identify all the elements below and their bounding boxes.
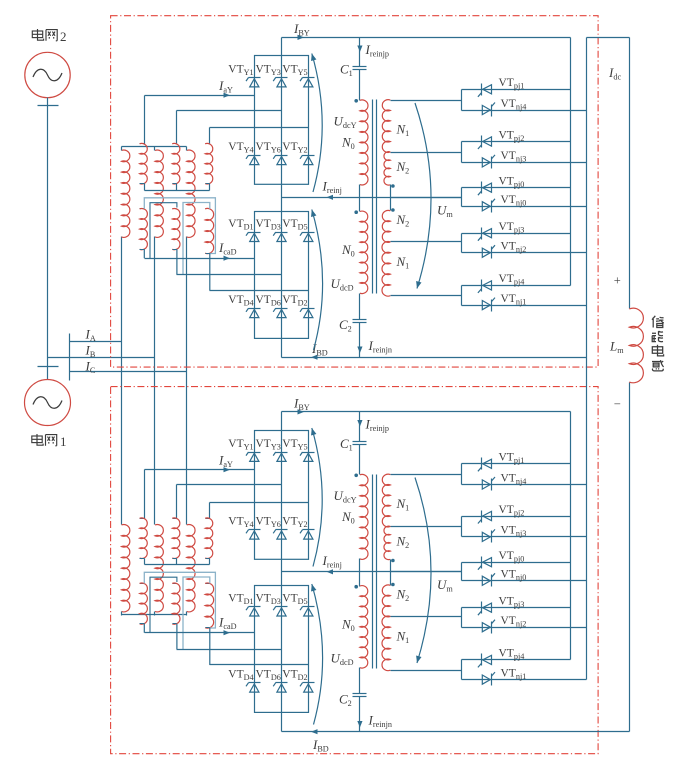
grid transformer primary winding col3 (lower block) bbox=[155, 525, 163, 612]
pair box pj1/nj4 left leg (lower block) bbox=[461, 464, 463, 485]
thyristor VT_D6 bbox=[276, 308, 288, 310]
arc U_dcY (upper block) bbox=[312, 54, 322, 193]
capacitor C2 (upper block) bbox=[353, 319, 367, 321]
grid transformer D-secondary winding col4 (upper block) bbox=[173, 208, 177, 210]
thyristor VT_D5 bbox=[303, 606, 315, 608]
grid1 terminal tick bbox=[38, 366, 59, 368]
thyristor VT_pj4 (upper block) bbox=[481, 280, 483, 292]
pj bus (upper block) bbox=[570, 38, 572, 286]
grid transformer D-secondary winding col4 (lower block) bbox=[173, 583, 177, 585]
grid transformer Y-secondary winding col2 (lower block) bbox=[140, 518, 145, 520]
bus bar bbox=[69, 334, 71, 381]
wire pj1 line (upper block) bbox=[462, 89, 571, 91]
wire nj4 line (upper block) bbox=[462, 110, 587, 112]
thyristor VT_D5 bbox=[303, 232, 315, 234]
wire center to N0 lower (lower block) bbox=[359, 572, 361, 587]
wire pj3 line (lower block) bbox=[462, 607, 571, 609]
thyristor VT_Y1 bbox=[249, 77, 261, 79]
wire nj0 line (upper block) bbox=[462, 206, 587, 208]
winding N2 upper (lower block) bbox=[384, 526, 390, 559]
thyristor VT_pj1 (upper block) bbox=[481, 84, 483, 96]
thyristor VT_pj0 (upper block) bbox=[481, 182, 483, 194]
wire phase ab to D-bridge (upper block) bbox=[177, 274, 282, 276]
wire D-bridge bottom to bottom rail (lower block) bbox=[281, 713, 283, 732]
pair box pj4/nj1 left leg (lower block) bbox=[461, 660, 463, 680]
winding N1 lower (upper block) bbox=[382, 241, 390, 296]
wire center tap (lower block) bbox=[391, 571, 462, 573]
phase C riser bbox=[186, 237, 188, 525]
thyristor VT_pj3 (upper block) bbox=[481, 228, 483, 240]
thyristor VT_Y3 bbox=[276, 77, 288, 79]
thyristor VT_Y3 bbox=[276, 452, 288, 454]
wire grid2 to bus bbox=[47, 98, 49, 380]
thyristor VT_nj2 (upper block) bbox=[491, 247, 493, 259]
wire tap5 (upper block) bbox=[391, 295, 462, 297]
thyristor VT_nj3 (lower block) bbox=[491, 531, 493, 543]
thyristor VT_Y4 bbox=[249, 155, 261, 157]
transformer core (lower block) bbox=[372, 475, 374, 669]
dc bus bbox=[629, 38, 631, 309]
winding N1 upper (upper block) bbox=[382, 100, 390, 153]
capacitor C2 (lower block) bbox=[353, 693, 367, 695]
D feed jog 2 (upper block) bbox=[176, 249, 178, 274]
wire pj3 line (upper block) bbox=[462, 233, 571, 235]
thyristor VT_Y2 bbox=[303, 529, 315, 531]
winding N1 lower (lower block) bbox=[382, 616, 390, 671]
wire Y feed 2 (lower block) bbox=[176, 485, 178, 519]
grid transformer Y-secondary winding col2 (upper block) bbox=[140, 143, 145, 145]
wire nj4 line (lower block) bbox=[462, 484, 587, 486]
grid transformer primary winding col1 (upper block) bbox=[122, 150, 130, 237]
delta link c (lower block) bbox=[183, 577, 210, 649]
thyristor VT_D2 bbox=[303, 308, 315, 310]
wire D-bridge bottom to bottom rail (upper block) bbox=[281, 339, 283, 358]
D bridge box bbox=[255, 212, 309, 339]
winding N1 upper (lower block) bbox=[382, 474, 390, 527]
primary neutral link (lower block) bbox=[122, 614, 187, 616]
thyristor VT_D1 bbox=[249, 606, 261, 608]
wire tap1 (lower block) bbox=[391, 474, 462, 476]
pair box pj3/nj2 left leg (upper block) bbox=[461, 234, 463, 253]
wire tap2 (upper block) bbox=[391, 152, 462, 154]
wire N0 lower to C2 (upper block) bbox=[359, 294, 361, 320]
pair box pj2/nj3 left leg (upper block) bbox=[461, 142, 463, 163]
Y-secondary neutral stub col6 (upper block) bbox=[209, 184, 211, 191]
winding N0 lower (upper block) bbox=[360, 211, 368, 293]
thyristor VT_Y5 bbox=[303, 452, 315, 454]
wire phase bc to D-bridge (lower block) bbox=[210, 664, 309, 666]
thyristor VT_pj1 (lower block) bbox=[481, 458, 483, 470]
wire I_C bbox=[70, 371, 187, 373]
thyristor VT_D4 bbox=[249, 308, 261, 310]
thyristor VT_nj3 (upper block) bbox=[491, 157, 493, 169]
delta link b (lower block) bbox=[150, 577, 177, 633]
thyristor VT_D6 bbox=[276, 682, 288, 684]
arc U_m (upper block) bbox=[415, 103, 431, 289]
winding N0 upper (lower block) bbox=[360, 474, 368, 559]
wire center to N0 lower (upper block) bbox=[359, 198, 361, 212]
arc U_dcD (upper block) bbox=[312, 210, 323, 351]
Y bridge middle leg bbox=[281, 431, 283, 559]
thyristor VT_D4 bbox=[249, 682, 261, 684]
wire pj4 line (upper block) bbox=[462, 285, 571, 287]
svg-text:−: − bbox=[614, 397, 621, 411]
thyristor VT_D1 bbox=[249, 232, 261, 234]
label grid1 电网1 bbox=[32, 434, 57, 446]
arc U_dcD (lower block) bbox=[312, 584, 323, 725]
wire phase a to Y-bridge (lower block) bbox=[145, 469, 255, 471]
grid2 terminal tick bbox=[38, 105, 59, 107]
thyristor VT_Y6 bbox=[276, 529, 288, 531]
inductor L_m bbox=[629, 308, 643, 383]
Y bridge middle leg bbox=[281, 56, 283, 185]
thyristor VT_nj2 (lower block) bbox=[491, 622, 493, 634]
Y bridge box bbox=[255, 56, 309, 185]
grid transformer D-secondary winding col2 (lower block) bbox=[140, 583, 145, 585]
wire pj2 line (upper block) bbox=[462, 141, 571, 143]
D feed jog 3 (upper block) bbox=[209, 253, 211, 290]
Y-secondary neutral stub col4 (lower block) bbox=[176, 559, 178, 565]
grid transformer D-secondary winding col2 (upper block) bbox=[140, 208, 145, 210]
arc U_dcY (lower block) bbox=[312, 428, 322, 567]
D feed jog 1 (upper block) bbox=[143, 249, 145, 258]
thyristor VT_Y5 bbox=[303, 77, 315, 79]
winding N2 lower (upper block) bbox=[382, 210, 390, 242]
wire N0 upper to center (upper block) bbox=[359, 185, 361, 198]
thyristor VT_pj2 (upper block) bbox=[481, 136, 483, 148]
grid transformer Y-secondary winding col4 (lower block) bbox=[173, 518, 177, 520]
wire I_BY top rail (upper block) bbox=[282, 37, 571, 39]
dash-dot enclosure (upper block) bbox=[111, 16, 598, 367]
wire pj1 line (lower block) bbox=[462, 463, 571, 465]
capacitor C1 (upper block) bbox=[353, 66, 367, 68]
grid transformer primary winding col5 (upper block) bbox=[187, 150, 195, 237]
wire nj0 line (lower block) bbox=[462, 580, 587, 582]
Y bridge box bbox=[255, 431, 309, 560]
delta link c (upper block) bbox=[183, 203, 210, 275]
phase A riser bbox=[121, 237, 123, 525]
thyristor VT_nj0 (upper block) bbox=[491, 201, 493, 213]
thyristor VT_D3 bbox=[276, 606, 288, 608]
grid transformer Y-secondary winding col4 (upper block) bbox=[173, 143, 177, 145]
winding N0 upper (upper block) bbox=[360, 100, 368, 185]
AC source grid2 bbox=[25, 52, 70, 97]
wire N0 lower to C2 (lower block) bbox=[359, 668, 361, 694]
delta link b (upper block) bbox=[150, 203, 177, 259]
grid transformer D-secondary winding col6 (upper block) bbox=[206, 208, 210, 210]
wire tap4 (lower block) bbox=[391, 616, 462, 618]
svg-text:+: + bbox=[614, 274, 621, 288]
pair box pj4/nj1 left leg (upper block) bbox=[461, 286, 463, 306]
grid transformer primary winding col3 (upper block) bbox=[155, 150, 163, 237]
grid transformer primary winding col1 (lower block) bbox=[122, 525, 130, 612]
wire C1 to primary winding (lower block) bbox=[359, 445, 361, 475]
wire nj3 line (lower block) bbox=[462, 536, 587, 538]
wire tap2 (lower block) bbox=[391, 526, 462, 528]
label grid2 电网2 bbox=[32, 29, 57, 41]
wire phase ab to D-bridge (lower block) bbox=[177, 649, 282, 651]
pair box pj0/nj0 left leg (upper block) bbox=[461, 188, 463, 207]
transformer core (upper block) bbox=[372, 100, 374, 294]
wire tap5 (lower block) bbox=[391, 670, 462, 672]
label 储能电感 bbox=[652, 316, 664, 328]
D bridge middle leg bbox=[281, 212, 283, 339]
Y-secondary neutral link (lower block) bbox=[145, 564, 210, 566]
pair box pj2/nj3 left leg (lower block) bbox=[461, 517, 463, 537]
wire Y-bridge bottom to D-bridge top (lower block) bbox=[281, 559, 283, 586]
grid transformer Y-secondary winding col6 (upper block) bbox=[206, 143, 210, 145]
svg-text:1: 1 bbox=[60, 434, 67, 449]
thyristor VT_nj1 (lower block) bbox=[491, 674, 493, 686]
wire nj bus to dc bus bracket bbox=[587, 37, 630, 39]
thyristor VT_pj0 (lower block) bbox=[481, 557, 483, 569]
primary neutral link (upper block) bbox=[122, 146, 187, 148]
wire I_minj line (lower block) bbox=[282, 571, 462, 573]
wire pj2 line (lower block) bbox=[462, 516, 571, 518]
wire nj3 line (upper block) bbox=[462, 162, 587, 164]
wire rail to Y-bridge (lower block) bbox=[281, 412, 283, 431]
secondary center tap (upper block) bbox=[390, 185, 392, 211]
thyristor VT_nj4 (lower block) bbox=[491, 479, 493, 491]
D feed jog 1 (lower block) bbox=[143, 624, 145, 633]
wire center tap (upper block) bbox=[391, 197, 462, 199]
winding N2 lower (lower block) bbox=[382, 585, 390, 617]
svg-text:2: 2 bbox=[60, 29, 67, 44]
thyristor VT_pj2 (lower block) bbox=[481, 511, 483, 523]
Y-secondary neutral stub col4 (upper block) bbox=[176, 184, 178, 191]
Y-secondary neutral stub col2 (upper block) bbox=[144, 184, 146, 191]
wire pj0 line (lower block) bbox=[462, 562, 571, 564]
AC source grid1 bbox=[25, 380, 71, 426]
pair box pj1/nj4 left leg (upper block) bbox=[461, 90, 463, 111]
wire rail to Y-bridge (upper block) bbox=[281, 38, 283, 56]
D bridge box bbox=[255, 586, 309, 713]
wire phase ca to D-bridge (I_caD) (lower block) bbox=[145, 632, 255, 634]
wire pj4 line (lower block) bbox=[462, 659, 571, 661]
thyristor VT_D2 bbox=[303, 682, 315, 684]
wire nj1 line (upper block) bbox=[462, 305, 587, 307]
wire rail to C1 (upper block) bbox=[359, 38, 361, 67]
Y-secondary neutral stub col6 (lower block) bbox=[209, 559, 211, 565]
arc U_m (lower block) bbox=[415, 478, 431, 664]
thyristor VT_nj0 (lower block) bbox=[491, 575, 493, 587]
grid transformer primary winding col5 (lower block) bbox=[187, 525, 195, 612]
nj bus bbox=[586, 38, 588, 680]
phase B riser bbox=[154, 237, 156, 525]
wire Y feed 1 (upper block) bbox=[144, 96, 146, 145]
wire C2 to bottom rail (lower block) bbox=[359, 697, 361, 732]
wire tap1 (upper block) bbox=[391, 100, 462, 102]
wire nj2 line (lower block) bbox=[462, 627, 587, 629]
Y-secondary neutral link (upper block) bbox=[145, 190, 210, 192]
thyristor VT_nj4 (upper block) bbox=[491, 105, 493, 117]
thyristor VT_D3 bbox=[276, 232, 288, 234]
delta link a (upper block) bbox=[144, 198, 215, 254]
wire phase ca to D-bridge (I_caD) (upper block) bbox=[145, 258, 255, 260]
wire phase bc to D-bridge (upper block) bbox=[210, 290, 309, 292]
thyristor VT_Y6 bbox=[276, 155, 288, 157]
capacitor C1 (lower block) bbox=[353, 441, 367, 443]
wire I_BD bottom rail (upper block) bbox=[282, 357, 587, 359]
thyristor VT_pj3 (lower block) bbox=[481, 602, 483, 614]
winding N0 lower (lower block) bbox=[360, 586, 368, 668]
wire I_minj line (upper block) bbox=[282, 197, 462, 199]
wire I_B bbox=[48, 357, 155, 359]
thyristor VT_pj4 (lower block) bbox=[481, 654, 483, 666]
wire N0 upper to center (lower block) bbox=[359, 559, 361, 572]
wire I_BD bottom rail (lower block) bbox=[282, 731, 630, 733]
wire I_A bbox=[70, 341, 122, 343]
wire I_BY top rail (lower block) bbox=[282, 411, 571, 413]
pair box pj3/nj2 left leg (lower block) bbox=[461, 608, 463, 628]
wire phase a to Y-bridge (upper block) bbox=[145, 95, 255, 97]
wire Y feed 2 (upper block) bbox=[176, 111, 178, 145]
D feed jog 3 (lower block) bbox=[209, 628, 211, 665]
D feed jog 2 (lower block) bbox=[176, 624, 178, 649]
wire phase c to Y-bridge (lower block) bbox=[210, 502, 309, 504]
thyristor VT_Y2 bbox=[303, 155, 315, 157]
wire Y feed 3 (lower block) bbox=[209, 503, 211, 519]
wire Y-bridge bottom to D-bridge top (upper block) bbox=[281, 185, 283, 212]
thyristor VT_Y1 bbox=[249, 452, 261, 454]
winding N2 upper (upper block) bbox=[384, 152, 390, 185]
wire phase b to Y-bridge (upper block) bbox=[177, 110, 282, 112]
wire tap4 (upper block) bbox=[391, 241, 462, 243]
thyristor VT_Y4 bbox=[249, 529, 261, 531]
wire phase c to Y-bridge (upper block) bbox=[210, 127, 309, 129]
wire pj0 line (upper block) bbox=[462, 187, 571, 189]
grid transformer Y-secondary winding col6 (lower block) bbox=[206, 518, 210, 520]
wire nj1 line (lower block) bbox=[462, 679, 587, 681]
grid transformer D-secondary winding col6 (lower block) bbox=[206, 583, 210, 585]
wire rail to C1 (lower block) bbox=[359, 412, 361, 442]
Y-secondary neutral stub col2 (lower block) bbox=[144, 559, 146, 565]
dash-dot enclosure (lower block) bbox=[111, 387, 598, 754]
pj bus (lower block) bbox=[570, 412, 572, 660]
wire nj2 line (upper block) bbox=[462, 252, 587, 254]
wire Y feed 1 (lower block) bbox=[144, 470, 146, 519]
secondary center tap (lower block) bbox=[390, 560, 392, 586]
D bridge middle leg bbox=[281, 586, 283, 713]
pair box pj0/nj0 left leg (lower block) bbox=[461, 563, 463, 581]
wire C2 to bottom rail (upper block) bbox=[359, 323, 361, 358]
delta link a (lower block) bbox=[144, 572, 215, 628]
wire C1 to primary winding (upper block) bbox=[359, 70, 361, 101]
wire Y feed 3 (upper block) bbox=[209, 128, 211, 145]
wire phase b to Y-bridge (lower block) bbox=[177, 484, 282, 486]
thyristor VT_nj1 (upper block) bbox=[491, 300, 493, 312]
